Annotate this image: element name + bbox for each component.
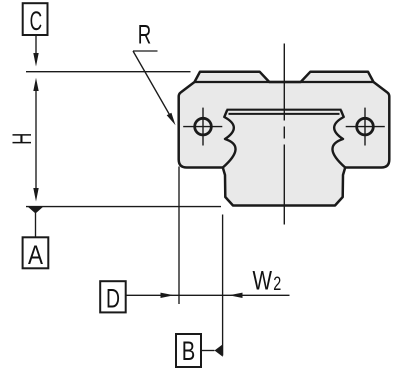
datum A triangle [27, 206, 44, 214]
R leader underline [133, 50, 158, 52]
H arrowhead down [33, 188, 38, 202]
D arrowhead (right) [161, 293, 175, 298]
box B [176, 334, 201, 367]
svg-text:B: B [182, 336, 196, 366]
A leader line [35, 213, 37, 238]
block top face line (under bumps) [195, 81, 374, 83]
H dimension line [35, 84, 37, 196]
svg-text:2: 2 [273, 274, 281, 295]
top extension line (datum C face) [26, 71, 191, 73]
D / W2 dimension line [126, 294, 290, 296]
right hole crosshair vertical [364, 108, 366, 146]
left hole crosshair vertical [202, 108, 204, 146]
rail top face lower line [229, 113, 340, 115]
left hole circle [195, 118, 212, 135]
svg-text:C: C [30, 6, 43, 36]
extension line of rail side face (down) [222, 215, 224, 356]
rail top face upper line [227, 109, 342, 111]
H arrowhead up [33, 78, 38, 91]
vertical centerline (dash-dot) [283, 44, 285, 225]
box C [23, 3, 48, 35]
bottom extension line (datum A face) [26, 206, 221, 208]
R arrowhead [167, 113, 176, 126]
svg-text:R: R [138, 19, 152, 49]
box A [23, 237, 49, 268]
right hole crosshair horizontal [346, 126, 385, 128]
B leader line [201, 350, 215, 352]
block body with rail foot (outer outline, gray fill) [179, 72, 390, 206]
svg-text:A: A [28, 240, 43, 270]
R leader slant [133, 51, 170, 116]
svg-text:D: D [106, 284, 120, 314]
datum B triangle [215, 344, 223, 356]
right hole circle [357, 118, 374, 135]
C arrowhead (down) [33, 53, 38, 67]
rail left side groove profile [223, 110, 236, 168]
extension line of block left face (down) [178, 167, 180, 305]
W2 arrowhead (left) [229, 293, 243, 298]
left hole crosshair horizontal [183, 126, 222, 128]
C leader line [35, 35, 37, 55]
svg-text:W: W [253, 266, 273, 296]
rail right side groove profile [332, 110, 345, 168]
box D [100, 281, 126, 312]
svg-text:H: H [7, 133, 37, 145]
